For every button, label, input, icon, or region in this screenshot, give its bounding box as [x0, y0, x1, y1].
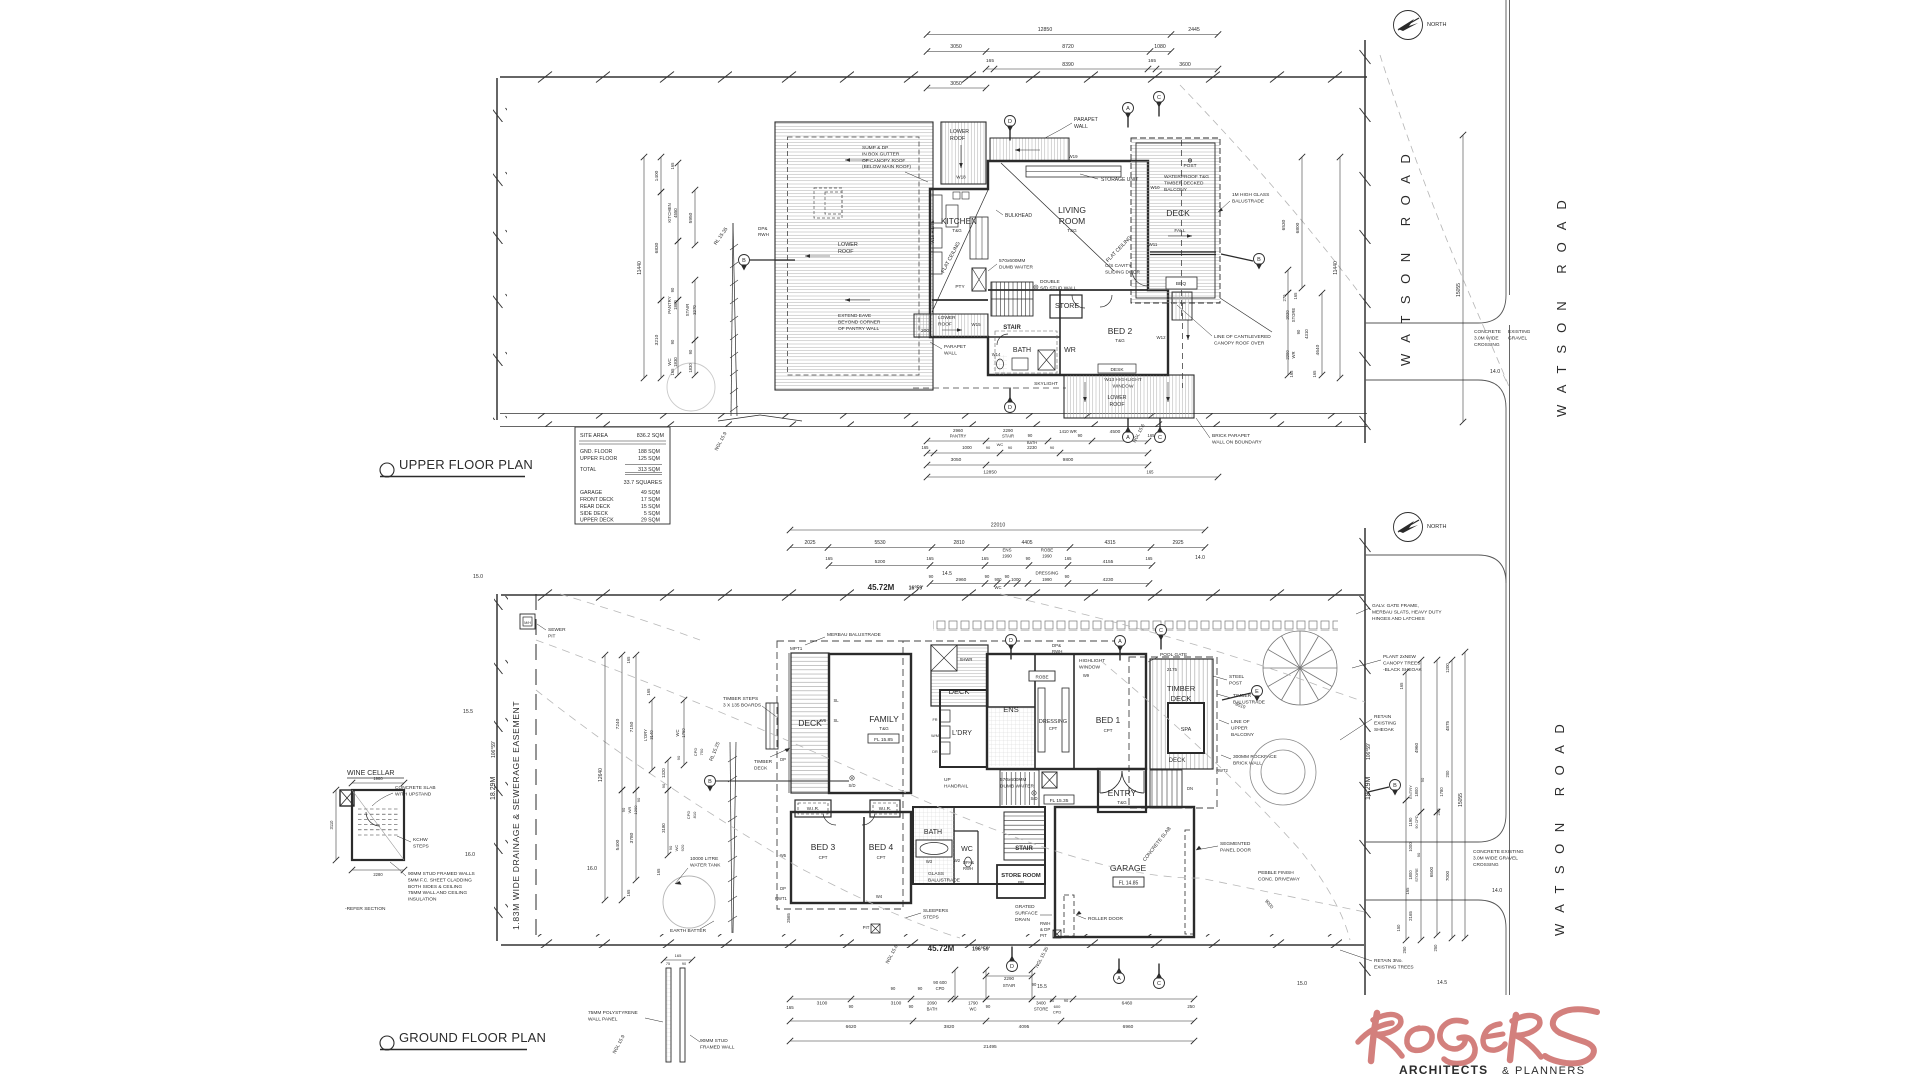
gfp: entry double doors — [1100, 771, 1122, 793]
svg-text:90: 90 — [661, 783, 666, 788]
svg-text:SLIDING DOOR: SLIDING DOOR — [1105, 269, 1140, 275]
svg-text:8720: 8720 — [1062, 44, 1074, 50]
svg-text:165: 165 — [656, 868, 661, 876]
door arcs upper plan — [1132, 270, 1148, 286]
svg-text:TOTAL: TOTAL — [580, 467, 596, 473]
svg-text:15.5: 15.5 — [463, 709, 473, 715]
svg-text:O/S CAVITY: O/S CAVITY — [1105, 263, 1132, 269]
svg-text:REAR DECK: REAR DECK — [580, 504, 611, 510]
svg-text:DECK: DECK — [949, 687, 970, 696]
svg-text:UPPER: UPPER — [1231, 725, 1248, 731]
svg-text:DECK: DECK — [1166, 208, 1190, 218]
svg-text:5200: 5200 — [875, 559, 886, 565]
svg-text:DECK: DECK — [1169, 758, 1186, 764]
svg-text:ROBE: ROBE — [1041, 548, 1054, 553]
upper left dims 11440 — [643, 157, 645, 378]
left jog lower roof — [914, 314, 988, 337]
svg-text:SLEEPERS: SLEEPERS — [923, 908, 948, 914]
svg-text:GLASS: GLASS — [928, 871, 944, 877]
svg-text:2200: 2200 — [1285, 350, 1290, 360]
svg-text:& DP: & DP — [1040, 927, 1050, 932]
upper plan: parapet roof strip above living — [990, 138, 1069, 161]
gfp: contour curves — [536, 640, 1365, 912]
svg-text:1410 WR: 1410 WR — [1059, 429, 1076, 434]
svg-text:PLANT 2xNEW: PLANT 2xNEW — [1383, 654, 1416, 660]
upper plan: bed2 wing interior — [988, 289, 1148, 291]
svg-text:3400: 3400 — [1036, 1001, 1046, 1006]
svg-text:3100: 3100 — [891, 1001, 902, 1007]
svg-text:900: 900 — [995, 577, 1003, 582]
svg-text:313 SQM: 313 SQM — [638, 467, 660, 473]
svg-text:WATSON ROAD: WATSON ROAD — [1552, 713, 1567, 936]
upper top dimension row 12850/2445 — [927, 34, 1218, 36]
svg-text:-REFER SECTION: -REFER SECTION — [345, 906, 386, 912]
svg-text:165: 165 — [626, 889, 631, 897]
svg-text:75: 75 — [666, 962, 670, 966]
gfp: roller door — [1064, 895, 1074, 936]
svg-text:CPD: CPD — [693, 748, 698, 757]
svg-text:4315: 4315 — [1104, 540, 1115, 546]
svg-text:BULKHEAD: BULKHEAD — [1005, 213, 1032, 219]
svg-text:&: & — [1502, 1065, 1509, 1077]
svg-text:RWH: RWH — [963, 866, 973, 871]
svg-text:STAIR: STAIR — [1002, 434, 1014, 439]
upper left dims col3 — [677, 163, 679, 241]
svg-text:16°59': 16°59' — [909, 586, 924, 592]
svg-text:2960: 2960 — [956, 577, 967, 583]
svg-text:90: 90 — [849, 1004, 854, 1009]
svg-text:FR: FR — [932, 718, 937, 722]
svg-text:7150: 7150 — [629, 721, 635, 732]
stair — [992, 282, 1030, 316]
svg-text:165: 165 — [1148, 433, 1156, 438]
svg-text:ROOM: ROOM — [1059, 216, 1085, 226]
gfp top dim row2 — [790, 547, 1205, 549]
svg-text:165: 165 — [786, 1005, 794, 1010]
svg-text:RETAIN 3No.: RETAIN 3No. — [1374, 958, 1403, 964]
svg-text:DP: DP — [780, 757, 786, 762]
svg-text:CPD: CPD — [1053, 1010, 1062, 1015]
svg-text:WITH UPSTAND: WITH UPSTAND — [395, 791, 432, 797]
svg-text:15.5: 15.5 — [1037, 984, 1047, 990]
svg-text:3780: 3780 — [629, 832, 635, 843]
svg-text:90 CPD: 90 CPD — [1415, 815, 1419, 829]
svg-text:CPT: CPT — [1049, 726, 1058, 731]
svg-text:2290: 2290 — [1004, 976, 1015, 981]
svg-text:2290: 2290 — [1003, 428, 1014, 433]
svg-text:90: 90 — [1050, 445, 1055, 450]
svg-text:6620: 6620 — [846, 1024, 857, 1030]
svg-text:DUMB WAITER: DUMB WAITER — [999, 264, 1033, 270]
svg-text:SL: SL — [833, 698, 839, 703]
svg-text:90: 90 — [1296, 329, 1301, 334]
svg-text:UPPER FLOOR: UPPER FLOOR — [580, 456, 617, 462]
svg-text:NORTH: NORTH — [1427, 524, 1446, 530]
svg-text:5 SQM: 5 SQM — [644, 511, 660, 517]
svg-text:6960: 6960 — [1123, 1024, 1134, 1030]
svg-text:D: D — [1008, 119, 1012, 125]
svg-text:W18: W18 — [956, 175, 966, 180]
gfp: tree 2 — [1250, 739, 1316, 805]
svg-text:KITCHEN: KITCHEN — [667, 203, 672, 222]
upper plan: roof arrows — [845, 159, 870, 161]
svg-text:11440: 11440 — [637, 261, 643, 275]
svg-text:CANOPY TREES: CANOPY TREES — [1383, 660, 1420, 666]
gfp: dashed rect around timber deck — [1129, 657, 1217, 808]
gfp left dim cluster — [604, 655, 606, 900]
lower site boundary left — [494, 594, 508, 941]
svg-text:CPD: CPD — [686, 811, 691, 820]
svg-text:570x600MM: 570x600MM — [999, 258, 1025, 264]
svg-text:106°59': 106°59' — [1366, 743, 1372, 760]
upper site boundary left — [493, 78, 507, 420]
svg-text:A: A — [1117, 976, 1121, 982]
svg-text:11440: 11440 — [1333, 261, 1339, 275]
svg-text:6500: 6500 — [1429, 866, 1434, 877]
svg-text:12850: 12850 — [1038, 27, 1053, 33]
deck steps below — [1172, 292, 1192, 320]
svg-text:W10: W10 — [1150, 185, 1160, 190]
svg-text:W/M: W/M — [931, 734, 939, 738]
contour dashes upper right — [1380, 55, 1509, 386]
svg-text:NORTH: NORTH — [1427, 22, 1446, 28]
svg-text:LIVING: LIVING — [1058, 205, 1086, 215]
svg-text:INSULATION: INSULATION — [408, 897, 437, 903]
svg-text:PARAPET: PARAPET — [1074, 117, 1099, 123]
svg-text:BED 2: BED 2 — [1108, 326, 1133, 336]
svg-text:WC: WC — [970, 1007, 977, 1012]
svg-text:ROOF: ROOF — [1110, 402, 1125, 408]
svg-text:FL 15.35: FL 15.35 — [1050, 798, 1069, 804]
svg-text:PANTRY: PANTRY — [950, 434, 967, 439]
svg-text:CONCRETE: CONCRETE — [1474, 329, 1501, 335]
svg-text:WC: WC — [997, 442, 1004, 447]
svg-text:90: 90 — [670, 287, 675, 292]
svg-text:90: 90 — [621, 807, 626, 812]
svg-text:TIMBER: TIMBER — [754, 759, 773, 765]
svg-text:BRICK WALL: BRICK WALL — [1233, 760, 1262, 766]
gfp: shower X top — [931, 645, 957, 671]
svg-text:SHWR: SHWR — [960, 657, 973, 662]
svg-text:-BLACK SHEOAK: -BLACK SHEOAK — [1383, 667, 1422, 673]
svg-text:POST: POST — [1229, 680, 1242, 686]
svg-text:5530: 5530 — [874, 540, 885, 546]
svg-text:WC: WC — [675, 730, 680, 737]
svg-text:A: A — [1126, 435, 1130, 441]
gfp: tree 1 — [1263, 631, 1337, 705]
svg-text:750: 750 — [699, 748, 704, 755]
gfp: laundry fixtures — [940, 710, 950, 722]
svg-text:LOWER: LOWER — [938, 315, 956, 321]
lower site boundary top — [501, 587, 1364, 601]
svg-text:250: 250 — [1187, 1004, 1195, 1009]
svg-text:15.0: 15.0 — [473, 574, 483, 580]
gfp right dim cluster — [1405, 672, 1407, 800]
svg-text:3820: 3820 — [944, 1024, 955, 1030]
svg-text:17 SQM: 17 SQM — [641, 497, 660, 503]
svg-text:1800: 1800 — [1414, 787, 1419, 797]
svg-text:2230: 2230 — [1027, 445, 1037, 450]
svg-text:10000 LITRE: 10000 LITRE — [690, 856, 718, 862]
svg-text:75MM POLYSTYRENE: 75MM POLYSTYRENE — [588, 1010, 638, 1016]
upper plan: main outer walls — [930, 161, 1168, 375]
svg-text:PIT: PIT — [548, 633, 556, 639]
svg-text:CPT: CPT — [1104, 728, 1113, 733]
svg-text:WATSON ROAD: WATSON ROAD — [1554, 188, 1569, 417]
svg-text:L'DRY: L'DRY — [643, 729, 648, 741]
gfp: steps right of entry — [1152, 770, 1177, 808]
svg-text:3110: 3110 — [329, 820, 334, 830]
svg-text:165: 165 — [1146, 556, 1154, 561]
gfp: markers bottom — [1011, 947, 1013, 961]
svg-text:90: 90 — [670, 339, 675, 344]
svg-text:PANTRY: PANTRY — [667, 296, 672, 313]
svg-text:3.0M WIDE GRAVEL: 3.0M WIDE GRAVEL — [1473, 855, 1518, 861]
svg-text:1000: 1000 — [962, 445, 972, 450]
north arrow — [1394, 513, 1447, 542]
svg-text:CROSSING: CROSSING — [1473, 862, 1499, 868]
svg-text:7240: 7240 — [615, 718, 621, 729]
svg-text:1200: 1200 — [633, 805, 638, 815]
ground circle upper plan — [667, 363, 715, 411]
svg-text:90: 90 — [676, 755, 681, 760]
svg-text:PANEL DOOR: PANEL DOOR — [1220, 847, 1251, 853]
svg-text:165: 165 — [1293, 292, 1298, 300]
gfp bottom dim row1 — [790, 998, 1194, 1000]
svg-text:WALL: WALL — [1074, 124, 1088, 130]
upper dimension 3050 below boundary — [927, 87, 986, 89]
gfp: wc — [965, 857, 972, 867]
svg-text:1990: 1990 — [1042, 577, 1052, 582]
gfp top dim row3 — [829, 565, 1152, 567]
svg-text:4640: 4640 — [1315, 344, 1321, 355]
svg-text:KITCHEN: KITCHEN — [941, 217, 977, 226]
svg-text:MPT1: MPT1 — [790, 646, 803, 651]
gfp: bed wing walls — [791, 812, 911, 903]
svg-text:600: 600 — [1054, 1004, 1061, 1009]
svg-text:STAIR: STAIR — [1003, 983, 1016, 988]
svg-text:DP&: DP& — [1052, 643, 1061, 648]
site area table — [575, 427, 670, 524]
svg-text:GALV. GATE FRAME,: GALV. GATE FRAME, — [1372, 603, 1419, 609]
svg-text:DP: DP — [780, 886, 786, 891]
svg-text:LINE OF CANTILEVERED: LINE OF CANTILEVERED — [1214, 334, 1271, 340]
svg-text:2090: 2090 — [927, 1001, 937, 1006]
svg-text:SHEOAK: SHEOAK — [1374, 727, 1395, 733]
svg-text:90: 90 — [1026, 556, 1031, 561]
svg-text:196°59': 196°59' — [972, 947, 990, 953]
svg-text:125 SQM: 125 SQM — [638, 456, 660, 462]
lower site boundary right (road frontage) — [1358, 528, 1372, 995]
BBQ — [1166, 277, 1197, 289]
svg-text:90: 90 — [1008, 445, 1013, 450]
svg-text:2280: 2280 — [373, 872, 383, 877]
svg-text:BBQ: BBQ — [1176, 281, 1186, 287]
kitchen island — [970, 217, 988, 259]
svg-text:DRAIN: DRAIN — [1015, 917, 1030, 923]
svg-text:POST: POST — [1183, 163, 1196, 169]
svg-text:165: 165 — [1289, 370, 1294, 378]
svg-text:STEEL: STEEL — [1229, 674, 1245, 680]
svg-text:T&G: T&G — [1115, 338, 1125, 343]
svg-text:14.0: 14.0 — [1492, 888, 1502, 894]
svg-text:PTY: PTY — [955, 284, 965, 290]
svg-text:CPD: CPD — [936, 986, 945, 991]
gfp: garage walls — [1055, 807, 1194, 937]
svg-text:200: 200 — [921, 328, 929, 334]
gfp: spa — [1168, 703, 1204, 753]
svg-text:W9: W9 — [1083, 673, 1090, 678]
upper plan: living room diagonal (flat ceiling) — [1001, 163, 1114, 271]
svg-text:GROUND FLOOR PLAN: GROUND FLOOR PLAN — [399, 1030, 546, 1045]
svg-text:ROOF: ROOF — [950, 136, 965, 142]
svg-text:HANDRAIL: HANDRAIL — [944, 783, 969, 789]
svg-text:WC: WC — [995, 585, 1002, 590]
svg-text:LINE OF: LINE OF — [1231, 719, 1250, 725]
upper left dims col2 — [660, 157, 662, 192]
svg-text:B: B — [742, 258, 746, 264]
upper top dimension row 165/8390/165/3600 — [986, 68, 1218, 70]
svg-text:4500: 4500 — [1110, 429, 1121, 435]
svg-text:M/H: M/H — [524, 621, 531, 625]
gfp: water tank — [663, 876, 715, 928]
svg-text:RWH: RWH — [1052, 649, 1062, 654]
svg-text:LOWER: LOWER — [950, 129, 969, 135]
svg-text:BATH: BATH — [1027, 440, 1037, 445]
svg-text:TIMBER: TIMBER — [1167, 684, 1196, 693]
skylight — [995, 331, 1057, 373]
svg-text:PLANNERS: PLANNERS — [1515, 1065, 1586, 1077]
svg-text:DN: DN — [1187, 786, 1193, 791]
svg-text:GRATED: GRATED — [1015, 904, 1035, 910]
gfp: family room walls — [829, 654, 911, 793]
svg-text:6800: 6800 — [1295, 222, 1301, 233]
svg-text:BATH: BATH — [1013, 347, 1031, 354]
svg-text:ROLLER DOOR: ROLLER DOOR — [1088, 916, 1123, 922]
svg-text:6830: 6830 — [654, 242, 660, 253]
gfp: markers top — [1010, 646, 1012, 660]
upper plan: roof dashed outline — [788, 137, 920, 375]
svg-text:FRONT DECK: FRONT DECK — [580, 497, 614, 503]
upper site boundary top — [500, 71, 1367, 85]
svg-text:165: 165 — [1065, 556, 1073, 561]
Watson Road kerb double line lower — [1365, 555, 1510, 995]
svg-text:DECK: DECK — [754, 765, 768, 771]
svg-text:W15: W15 — [971, 322, 981, 327]
svg-text:STORE: STORE — [1034, 1007, 1049, 1012]
svg-text:WALL: WALL — [944, 350, 957, 356]
svg-text:90: 90 — [1064, 998, 1069, 1003]
gfp: robe box — [1029, 671, 1055, 681]
svg-text:STEPS: STEPS — [923, 914, 939, 920]
svg-text:DRESSING: DRESSING — [1039, 719, 1067, 725]
svg-text:165: 165 — [1405, 887, 1410, 895]
svg-text:BOTH SIDES & CEILING: BOTH SIDES & CEILING — [408, 884, 462, 890]
svg-text:1M HIGH GLASS: 1M HIGH GLASS — [1232, 192, 1269, 198]
svg-text:STORE: STORE — [1414, 868, 1419, 882]
svg-text:CPT: CPT — [877, 855, 886, 860]
svg-text:DECK: DECK — [798, 718, 822, 728]
svg-text:16.0: 16.0 — [465, 852, 475, 858]
dumb waiter — [972, 268, 986, 291]
svg-text:1800: 1800 — [1408, 870, 1413, 880]
svg-text:920: 920 — [680, 844, 685, 851]
svg-text:90: 90 — [1416, 852, 1421, 857]
svg-text:B: B — [708, 779, 712, 785]
svg-text:E: E — [1255, 689, 1259, 695]
gfp: dashed line of upper floor (left block) — [777, 641, 903, 909]
gfp: sewer pit M/H — [520, 614, 535, 629]
gfp: smoke detector family — [850, 776, 854, 780]
svg-text:FALL: FALL — [1174, 228, 1186, 234]
svg-text:RWH: RWH — [758, 232, 769, 237]
svg-text:GARAGE: GARAGE — [1110, 863, 1147, 873]
svg-text:2020: 2020 — [1285, 310, 1290, 320]
svg-text:3050: 3050 — [950, 44, 962, 50]
svg-text:188 SQM: 188 SQM — [638, 449, 660, 455]
svg-text:8390: 8390 — [1062, 62, 1074, 68]
svg-text:T&G: T&G — [879, 726, 889, 731]
svg-text:165: 165 — [1312, 370, 1317, 378]
svg-text:570x600MM: 570x600MM — [1000, 777, 1026, 783]
svg-text:90: 90 — [688, 349, 693, 354]
svg-text:BATH: BATH — [927, 1007, 938, 1012]
title: UPPER FLOOR PLAN — [380, 457, 533, 477]
section marker A top — [1127, 114, 1129, 128]
svg-text:D: D — [1009, 638, 1013, 644]
svg-text:WATERPROOF T&G: WATERPROOF T&G — [1164, 174, 1209, 180]
wall panel section — [666, 968, 671, 1062]
svg-text:CPT: CPT — [819, 855, 828, 860]
svg-text:3050: 3050 — [950, 81, 962, 87]
svg-text:49 SQM: 49 SQM — [641, 490, 660, 496]
svg-text:165: 165 — [646, 688, 651, 696]
svg-text:T&G: T&G — [1067, 228, 1077, 233]
svg-text:(BELOW MAIN ROOF): (BELOW MAIN ROOF) — [862, 164, 911, 170]
svg-text:1200: 1200 — [1445, 663, 1450, 673]
upper plan: roof dashed boxes — [814, 188, 842, 218]
section marker D top — [1009, 127, 1011, 141]
gfp: store room — [997, 865, 1045, 898]
svg-text:C: C — [1158, 435, 1162, 441]
svg-text:SKYLIGHT: SKYLIGHT — [1034, 381, 1058, 387]
svg-text:OF CANOPY ROOF: OF CANOPY ROOF — [862, 158, 905, 164]
svg-text:2925: 2925 — [1172, 540, 1183, 546]
svg-text:W4: W4 — [876, 894, 883, 899]
gfp: mid deck — [931, 645, 988, 706]
svg-text:SEGMENTED: SEGMENTED — [1220, 841, 1251, 847]
svg-text:WINE CELLAR: WINE CELLAR — [347, 770, 394, 777]
svg-text:90: 90 — [1032, 982, 1037, 987]
svg-text:75MM WALL AND CEILING: 75MM WALL AND CEILING — [408, 890, 467, 896]
svg-text:SIDE DECK: SIDE DECK — [580, 511, 609, 517]
section marker C top — [1158, 103, 1160, 117]
svg-text:165: 165 — [670, 162, 675, 170]
gfp top dim 22010 — [790, 529, 1205, 531]
upper plan: kitchen fixtures — [930, 195, 942, 223]
svg-text:FL 14.85: FL 14.85 — [1119, 881, 1139, 887]
svg-text:12640: 12640 — [598, 768, 604, 782]
svg-text:CONCRETE EXISTING: CONCRETE EXISTING — [1473, 849, 1524, 855]
svg-text:3210: 3210 — [654, 334, 660, 345]
svg-text:D: D — [1010, 964, 1014, 970]
svg-text:FRAMED WALL: FRAMED WALL — [700, 1044, 735, 1050]
gfp: front deck boards — [791, 653, 829, 793]
svg-text:836.2 SQM: 836.2 SQM — [637, 433, 665, 439]
wine cellar dims — [335, 790, 337, 860]
svg-text:UPPER FLOOR PLAN: UPPER FLOOR PLAN — [399, 457, 533, 472]
svg-text:90: 90 — [682, 962, 686, 966]
